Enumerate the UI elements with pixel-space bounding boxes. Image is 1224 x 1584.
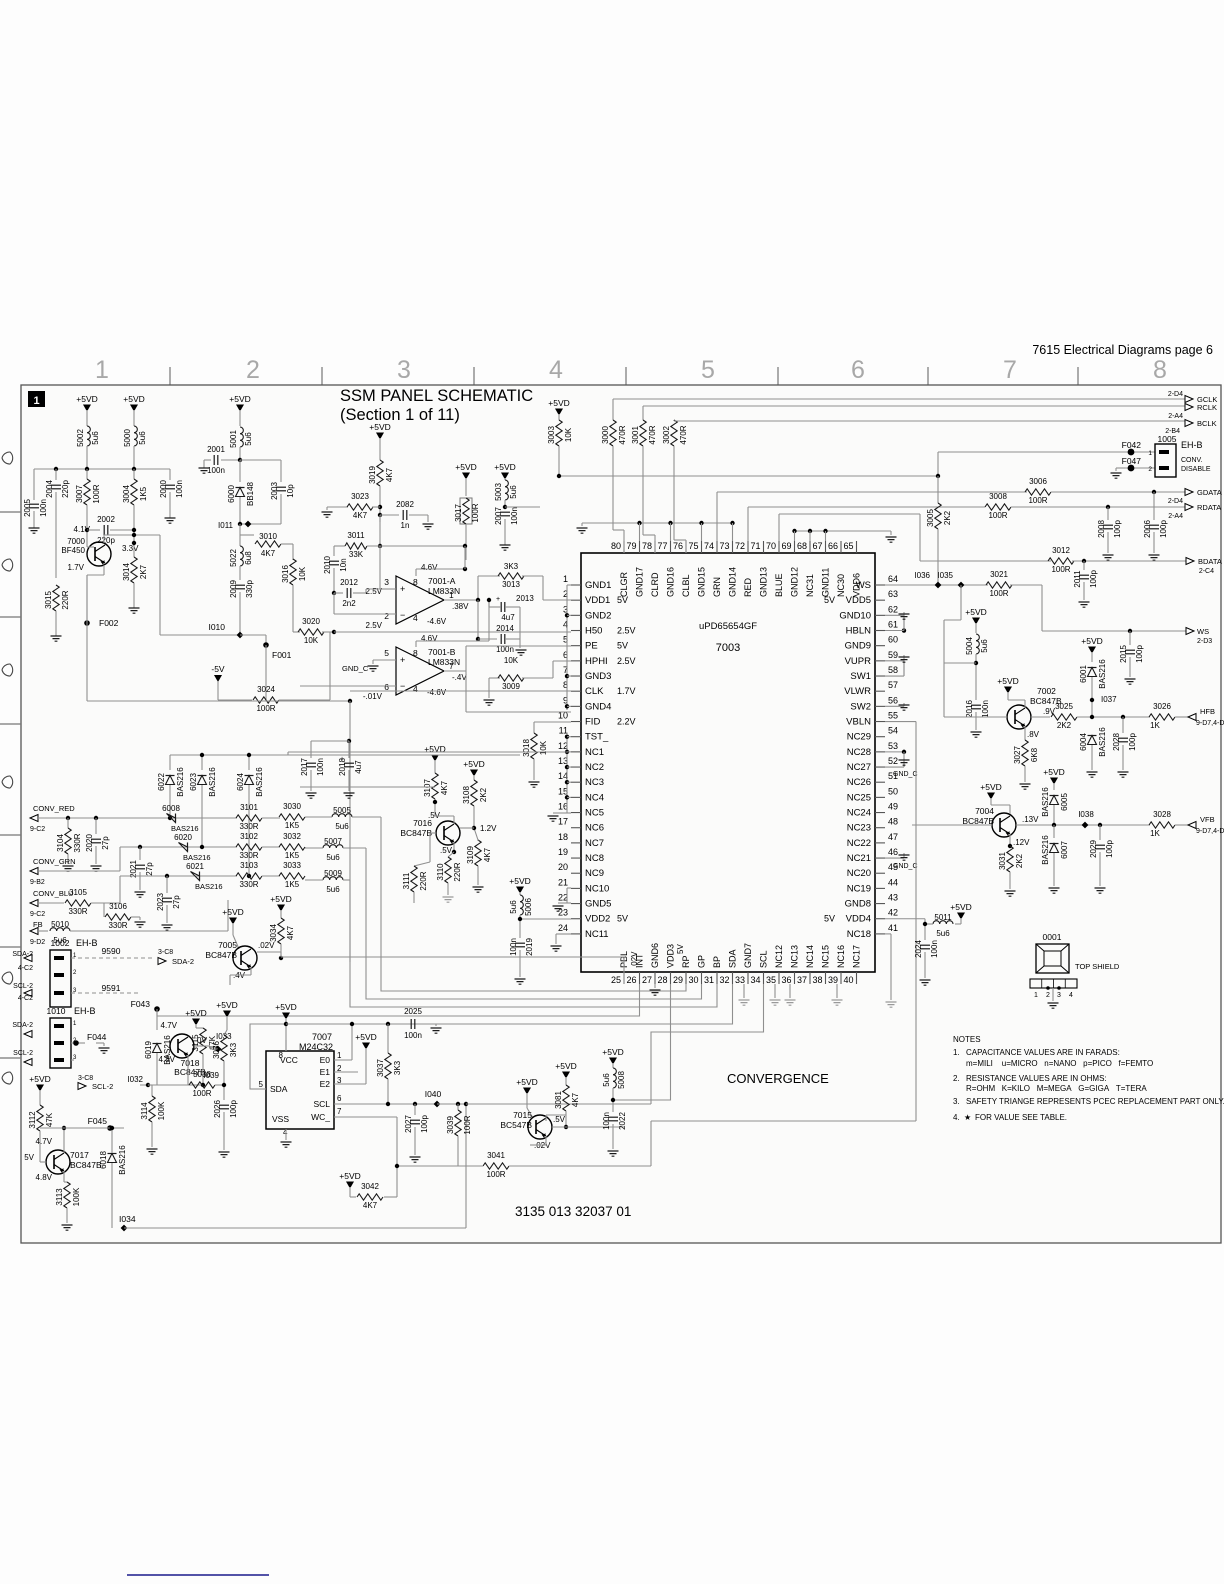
- resistor 3110 220R: [448, 852, 454, 857]
- svg-text:NC8: NC8: [585, 853, 604, 864]
- svg-text:100R: 100R: [1028, 496, 1047, 505]
- svg-text:BAS216: BAS216: [255, 767, 264, 797]
- IC pin 39 NC16: [840, 972, 842, 984]
- capacitor 2082 1n: [378, 513, 382, 517]
- transistor 7017 BC847B: [46, 1150, 70, 1174]
- IC pin 22 GND5: [571, 903, 581, 905]
- node I036: [935, 582, 942, 589]
- IC pin 3 GND2: [571, 614, 581, 616]
- resistor 3007 100R: [86, 469, 88, 479]
- IC pin 63 VDD5: [875, 599, 885, 601]
- svg-text:330R: 330R: [239, 880, 258, 889]
- left margin row glyphs: [2, 452, 13, 464]
- svg-text:5007: 5007: [324, 837, 342, 846]
- svg-text:5u6: 5u6: [509, 900, 518, 914]
- IC pin 10 FID: [571, 721, 581, 723]
- resistor 3026 1K: [1149, 714, 1175, 720]
- left gnd bracket pins 21-22: [566, 888, 568, 903]
- svg-text:3109: 3109: [466, 846, 475, 864]
- svg-text:41: 41: [888, 923, 898, 933]
- ground 2000: [165, 518, 176, 523]
- svg-text:GND17: GND17: [635, 567, 645, 597]
- svg-text:SCL-2: SCL-2: [92, 1082, 113, 1091]
- svg-text:5u6: 5u6: [91, 431, 100, 445]
- svg-text:100R: 100R: [471, 503, 480, 522]
- svg-text:NC6: NC6: [585, 823, 604, 834]
- svg-text:40: 40: [843, 975, 853, 985]
- svg-text:TOP SHIELD: TOP SHIELD: [1075, 962, 1120, 971]
- svg-text:+5VD: +5VD: [275, 1002, 297, 1012]
- svg-text:VLWR: VLWR: [844, 686, 871, 697]
- wire 5008 down: [612, 1099, 614, 1101]
- capacitor 2007 100n: [500, 511, 510, 513]
- svg-text:3017: 3017: [454, 504, 463, 522]
- resistor 3001 470R: [642, 406, 644, 420]
- svg-text:74: 74: [704, 541, 714, 551]
- IC U7003 uPD65654GF body: [581, 553, 875, 972]
- svg-text:6: 6: [851, 356, 865, 384]
- wire 7017 collector: [63, 1128, 65, 1153]
- wire H50 pin4: [334, 631, 571, 633]
- svg-text:2.5V: 2.5V: [366, 587, 383, 596]
- svg-text:VSS: VSS: [272, 1114, 289, 1124]
- svg-text:CONV_RED: CONV_RED: [33, 804, 75, 813]
- svg-text:54: 54: [888, 726, 898, 736]
- capacitor 2028 100p: [1121, 715, 1125, 719]
- IC pin 70 BLUE: [778, 541, 780, 553]
- IC pin 45 NC20: [875, 872, 885, 874]
- capacitor 2014 100n: [476, 637, 480, 641]
- svg-text:2001: 2001: [207, 445, 225, 454]
- svg-text:1K5: 1K5: [139, 486, 148, 501]
- svg-text:GND14: GND14: [728, 567, 738, 597]
- ground bottom pin: [789, 984, 791, 998]
- RCLK off-page: [1185, 404, 1193, 411]
- wire RED to RDATA: [747, 507, 749, 541]
- svg-text:4: 4: [549, 356, 563, 384]
- IC pin 23 VDD2: [571, 918, 581, 920]
- resistor 3015 220R: [55, 530, 57, 578]
- svg-text:34: 34: [750, 975, 760, 985]
- diode 6021 BAS216: [191, 872, 200, 881]
- capacitor 2026 100p: [219, 1104, 229, 1106]
- IC pin 49 NC24: [875, 812, 885, 814]
- IC pin 50 NC25: [875, 796, 885, 798]
- svg-text:M24C32: M24C32: [299, 1042, 333, 1052]
- svg-text:7015: 7015: [513, 1110, 532, 1120]
- wire BCLK bus: [674, 420, 1185, 422]
- svg-text:330R: 330R: [68, 907, 87, 916]
- capacitor 2018 4u7: [347, 739, 351, 743]
- svg-text:2022: 2022: [618, 1112, 627, 1130]
- svg-text:55: 55: [888, 711, 898, 721]
- capacitor 2024 100n: [920, 944, 930, 946]
- svg-text:SDA-2: SDA-2: [172, 957, 194, 966]
- svg-text:17: 17: [558, 817, 568, 827]
- capacitor 2009 330p: [235, 584, 245, 586]
- wire CLK row: [350, 690, 571, 692]
- resistor 3014 2K7: [133, 543, 135, 557]
- svg-text:SDA: SDA: [728, 949, 738, 968]
- ground F047: [1116, 467, 1125, 469]
- svg-text:F001: F001: [272, 650, 292, 660]
- IC pin 77 GND16: [670, 541, 672, 553]
- svg-text:2018: 2018: [338, 758, 347, 776]
- svg-text:BAS216: BAS216: [1041, 835, 1050, 865]
- svg-text:3012: 3012: [1052, 546, 1070, 555]
- svg-text:42: 42: [888, 908, 898, 918]
- svg-text:3011: 3011: [347, 531, 365, 540]
- svg-text:2015: 2015: [1119, 645, 1128, 663]
- svg-text:330R: 330R: [108, 921, 127, 930]
- svg-text:100p: 100p: [420, 1115, 429, 1133]
- svg-text:100R: 100R: [989, 589, 1008, 598]
- ground bus top pins left: [582, 522, 733, 524]
- svg-text:10K: 10K: [298, 566, 307, 581]
- HFB off-page: [1188, 714, 1196, 721]
- svg-text:3032: 3032: [283, 832, 301, 841]
- svg-text:+5VD: +5VD: [369, 422, 391, 432]
- svg-text:3-C8: 3-C8: [158, 949, 173, 956]
- wire 5004 to VBLN: [960, 585, 962, 620]
- ground bottom pin: [774, 984, 776, 998]
- svg-text:GND1: GND1: [585, 580, 611, 591]
- opamp A input wires: [366, 588, 396, 590]
- svg-text:100R: 100R: [988, 511, 1007, 520]
- left gnd bracket pins 1-9: [566, 585, 568, 710]
- svg-text:2011: 2011: [1073, 570, 1082, 588]
- svg-text:3.: 3.: [953, 1097, 960, 1106]
- svg-text:+5VD: +5VD: [355, 1032, 377, 1042]
- right gnd pins 61-62: [885, 614, 904, 616]
- svg-text:2019: 2019: [525, 938, 534, 956]
- opamp A power: [415, 569, 417, 576]
- svg-text:NOTES: NOTES: [953, 1035, 981, 1044]
- wire F001 down: [265, 645, 267, 700]
- capacitor 2013 4u7: [476, 598, 480, 602]
- wire 7016 out: [460, 827, 474, 829]
- svg-text:3004: 3004: [122, 485, 131, 503]
- svg-text:3028: 3028: [1153, 810, 1171, 819]
- svg-text:50: 50: [888, 786, 898, 796]
- node F044: [71, 1042, 85, 1044]
- svg-text:+5VD: +5VD: [1043, 767, 1065, 777]
- svg-text:35: 35: [766, 975, 776, 985]
- svg-text:10K: 10K: [304, 636, 319, 645]
- svg-text:+5VD: +5VD: [270, 894, 292, 904]
- svg-text:1: 1: [33, 395, 39, 407]
- svg-text:BB148: BB148: [246, 481, 255, 506]
- wire VCC bus: [286, 1023, 411, 1025]
- resistor 3011 33K: [339, 545, 345, 547]
- svg-text:1005: 1005: [1158, 434, 1177, 444]
- svg-text:I032: I032: [127, 1075, 143, 1084]
- IC pin 60 GND9: [875, 645, 885, 647]
- svg-text:3002: 3002: [662, 426, 671, 444]
- IC pin 8 CLK: [571, 690, 581, 692]
- resistor 3111 220R: [414, 862, 430, 866]
- resistor 3019 4K7: [377, 460, 383, 486]
- svg-text:220R: 220R: [453, 862, 462, 881]
- svg-text:2K2: 2K2: [1015, 853, 1024, 868]
- svg-text:3019: 3019: [368, 466, 377, 484]
- svg-text:18: 18: [558, 832, 568, 842]
- svg-text:100p: 100p: [1089, 570, 1098, 588]
- inductor 5009 5u6: [323, 877, 343, 880]
- IC pin 7 GND3: [571, 675, 581, 677]
- wire INT pin26: [157, 984, 640, 1016]
- svg-text:GND10: GND10: [839, 610, 871, 621]
- svg-text:NC17: NC17: [852, 945, 862, 968]
- wire 7002 base: [975, 662, 977, 664]
- RDATA off-page: [1185, 504, 1193, 511]
- IC pin 76 CLBL: [685, 541, 687, 553]
- svg-text:75: 75: [688, 541, 698, 551]
- svg-text:2004: 2004: [45, 480, 54, 498]
- resistor 3005 2K2: [937, 476, 939, 503]
- svg-text:46: 46: [888, 847, 898, 857]
- wire 2014 row: [477, 638, 479, 640]
- wire I010 row: [160, 634, 240, 636]
- svg-text:NC5: NC5: [585, 808, 604, 819]
- svg-text:8: 8: [413, 648, 418, 658]
- svg-text:29: 29: [673, 975, 683, 985]
- svg-text:CONV_GRN: CONV_GRN: [33, 857, 76, 866]
- svg-text:7000: 7000: [67, 537, 85, 546]
- svg-text:BC847B: BC847B: [70, 1160, 102, 1170]
- svg-text:+5VD: +5VD: [950, 902, 972, 912]
- IC pin 12 NC1: [571, 751, 581, 753]
- svg-text:SW2: SW2: [850, 701, 871, 712]
- svg-text:4u7: 4u7: [501, 613, 515, 622]
- WS off-page: [1186, 628, 1194, 635]
- svg-text:330R: 330R: [239, 822, 258, 831]
- wire 7000 1.7V emitter trace: [86, 575, 88, 623]
- svg-text:BAS216: BAS216: [118, 1145, 127, 1175]
- svg-text:+5VD: +5VD: [222, 907, 244, 917]
- right gnd pins 56-57: [885, 705, 904, 707]
- svg-text:78: 78: [642, 541, 652, 551]
- svg-text:3023: 3023: [351, 492, 369, 501]
- svg-text:4.6V: 4.6V: [421, 634, 438, 643]
- svg-text:27p: 27p: [172, 895, 181, 909]
- CONV_RED row: [38, 817, 237, 819]
- svg-text:NC9: NC9: [585, 868, 604, 879]
- svg-text:2K2: 2K2: [479, 787, 488, 802]
- IC pin 4 H50: [571, 630, 581, 632]
- resistor 3114 100K: [151, 1085, 153, 1096]
- svg-text:SCL: SCL: [313, 1099, 330, 1109]
- svg-text:NC11: NC11: [585, 929, 609, 940]
- diode 6024 BAS216: [248, 755, 250, 770]
- wire 741 row: [311, 740, 349, 742]
- svg-text:3025: 3025: [1055, 702, 1073, 711]
- svg-text:.38V: .38V: [452, 602, 469, 611]
- svg-text:NC14: NC14: [805, 945, 815, 968]
- IC pin 36 NC13: [794, 972, 796, 984]
- svg-text:GND8: GND8: [845, 899, 871, 910]
- svg-text:I036: I036: [914, 571, 930, 580]
- wire x87 down: [86, 623, 88, 701]
- svg-text:5002: 5002: [76, 429, 85, 447]
- svg-text:67: 67: [812, 541, 822, 551]
- svg-text:NC26: NC26: [847, 777, 871, 788]
- IC pin 38 NC15: [825, 972, 827, 984]
- svg-text:6: 6: [337, 1094, 342, 1103]
- wire CLK pin8: [350, 690, 571, 692]
- ground 3023: [326, 507, 328, 510]
- svg-text:3103: 3103: [240, 861, 258, 870]
- svg-text:GND9: GND9: [845, 641, 871, 652]
- svg-text:3008: 3008: [989, 492, 1007, 501]
- ground 3014: [129, 608, 140, 613]
- svg-text:9-D7,4-D8: 9-D7,4-D8: [1196, 828, 1224, 835]
- svg-text:28: 28: [657, 975, 667, 985]
- svg-text:VDD3: VDD3: [666, 944, 676, 968]
- svg-text:5V: 5V: [617, 914, 628, 924]
- svg-text:3024: 3024: [257, 685, 275, 694]
- svg-text:4.8V: 4.8V: [36, 1173, 53, 1182]
- svg-text:60: 60: [888, 635, 898, 645]
- varicap 6000 BB148: [239, 460, 241, 482]
- svg-text:48: 48: [888, 817, 898, 827]
- svg-text:3034: 3034: [269, 924, 278, 942]
- svg-text:100n: 100n: [602, 1112, 611, 1130]
- svg-text:6023: 6023: [189, 773, 198, 791]
- svg-text:+5VD: +5VD: [123, 394, 145, 404]
- IC pin 40 NC17: [856, 972, 858, 984]
- svg-text:23: 23: [558, 908, 568, 918]
- svg-text:3102: 3102: [240, 832, 258, 841]
- IC pin 71 GND13: [763, 541, 765, 553]
- svg-text:GND2: GND2: [585, 610, 611, 621]
- svg-text:47K: 47K: [45, 1112, 54, 1127]
- svg-text:100R: 100R: [1051, 565, 1070, 574]
- svg-text:BF450: BF450: [61, 546, 85, 555]
- svg-text:33: 33: [735, 975, 745, 985]
- svg-text:CLRD: CLRD: [650, 572, 660, 597]
- resistor 3006 100R: [1025, 489, 1051, 495]
- svg-text:5005: 5005: [333, 806, 351, 815]
- capacitor 2020 27p: [95, 818, 97, 834]
- svg-text:SDA: SDA: [270, 1084, 288, 1094]
- wire HPHI pin6: [553, 660, 571, 662]
- svg-text:3015: 3015: [44, 591, 53, 609]
- svg-text:3112: 3112: [28, 1111, 37, 1129]
- wire 7018 emitter: [187, 1055, 189, 1085]
- resistor 3016 10K: [290, 559, 296, 585]
- IC pin 75 GND15: [701, 541, 703, 553]
- svg-text:3K3: 3K3: [229, 1042, 238, 1057]
- IC pin 1 GND1: [571, 584, 581, 586]
- inductor 5005 5u6: [332, 814, 352, 817]
- transistor 7018 BC847B: [170, 1034, 194, 1058]
- inductor 5008 5u6: [613, 1068, 616, 1088]
- svg-text:WS: WS: [1197, 627, 1209, 636]
- svg-text:3114: 3114: [140, 1102, 149, 1120]
- svg-text:LM833N: LM833N: [428, 586, 460, 596]
- CONV_BLU row: [38, 902, 64, 904]
- svg-text:BAS216: BAS216: [1041, 787, 1050, 817]
- IC pin 30 GP: [701, 972, 703, 984]
- inductor 5002 5u6: [87, 426, 90, 446]
- resistor 3105 330R: [65, 900, 91, 906]
- IC pin 21 NC10: [571, 887, 581, 889]
- svg-text:26: 26: [626, 975, 636, 985]
- svg-text:uPD65654GF: uPD65654GF: [699, 621, 757, 632]
- IC pin 80 CLGR: [623, 541, 625, 553]
- svg-text:2009: 2009: [229, 580, 238, 598]
- svg-text:47: 47: [888, 832, 898, 842]
- wire RP pin29: [381, 817, 686, 991]
- svg-text:GND4: GND4: [585, 701, 611, 712]
- svg-text:5022: 5022: [229, 549, 238, 567]
- svg-text:NC21: NC21: [847, 853, 871, 864]
- svg-text:1: 1: [1148, 450, 1152, 457]
- transistor 7015 BC547B: [528, 1115, 552, 1139]
- svg-text:GND_C: GND_C: [342, 664, 369, 673]
- svg-text:73: 73: [719, 541, 729, 551]
- right gnd pins 52-53-54: [885, 751, 904, 753]
- wire WS out row: [1042, 630, 1186, 632]
- svg-text:GND7: GND7: [743, 943, 753, 968]
- svg-text:+5VD: +5VD: [602, 1047, 624, 1057]
- svg-text:EH-B: EH-B: [1181, 440, 1203, 450]
- svg-text:1: 1: [337, 1051, 342, 1060]
- resistor 3027 6K8: [1022, 740, 1028, 766]
- capacitor 2011 100p: [1082, 559, 1086, 563]
- svg-text:4-C2: 4-C2: [18, 965, 33, 972]
- ground bottom pin: [743, 984, 745, 998]
- op-amp U7001-B LM833N: [396, 647, 444, 695]
- svg-text:4.7V: 4.7V: [36, 1137, 53, 1146]
- svg-text:VDD4: VDD4: [846, 914, 871, 925]
- svg-text:GND12: GND12: [790, 567, 800, 597]
- resistor 3034 4K7: [278, 918, 284, 944]
- transistor 7004 BC847B: [992, 813, 1016, 837]
- svg-text:+5VD: +5VD: [1081, 636, 1103, 646]
- diode 6019 BAS216: [153, 1044, 162, 1053]
- svg-text:100p: 100p: [229, 1100, 238, 1118]
- svg-text:43: 43: [888, 893, 898, 903]
- svg-text:6021: 6021: [186, 862, 204, 871]
- wire 7004 base: [912, 824, 992, 826]
- opamp B minus input wire: [300, 685, 396, 687]
- resistor 3021 100R: [986, 582, 1012, 588]
- svg-text:56: 56: [888, 695, 898, 705]
- svg-text:68: 68: [797, 541, 807, 551]
- svg-text:4K7: 4K7: [261, 549, 276, 558]
- svg-text:10p: 10p: [286, 484, 295, 498]
- capacitor 2029 100p: [1098, 823, 1102, 827]
- svg-text:100p: 100p: [1159, 520, 1168, 538]
- svg-text:3033: 3033: [283, 861, 301, 870]
- svg-text:1K: 1K: [1150, 829, 1160, 838]
- svg-text:6008: 6008: [162, 804, 180, 813]
- wire F045 row: [40, 1127, 124, 1129]
- svg-text:3113: 3113: [55, 1188, 64, 1206]
- IC pin 61 HBLN: [875, 630, 885, 632]
- svg-text:NC28: NC28: [847, 747, 871, 758]
- resistor 3113 100K: [63, 1171, 65, 1182]
- resistor 3008 100R: [985, 504, 1011, 510]
- wire 7005 collector row y958: [257, 951, 281, 953]
- svg-text:3: 3: [1057, 992, 1061, 999]
- svg-text:470R: 470R: [618, 425, 627, 444]
- svg-text:19: 19: [558, 847, 568, 857]
- svg-text:VDD6: VDD6: [852, 573, 862, 597]
- resistor 3103 330R: [236, 873, 262, 879]
